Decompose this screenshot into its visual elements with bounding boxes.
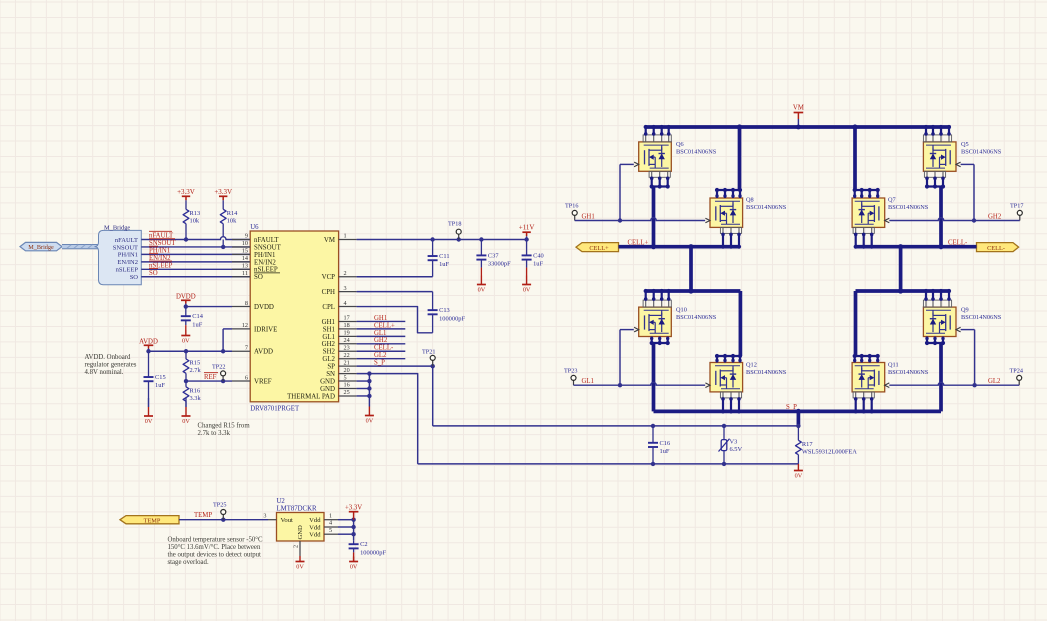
svg-text:BSC014N06NS: BSC014N06NS: [888, 369, 929, 376]
svg-text:Q8: Q8: [746, 197, 754, 204]
svg-text:PH/IN1: PH/IN1: [118, 252, 138, 259]
svg-text:25: 25: [344, 389, 350, 396]
ground 0V under U2 GND pin: [296, 556, 305, 571]
svg-text:SP: SP: [327, 364, 335, 371]
svg-text:DRV8701PRGET: DRV8701PRGET: [250, 406, 300, 413]
svg-text:Q5: Q5: [961, 141, 969, 148]
svg-text:SH2: SH2: [323, 349, 336, 356]
net label nFAULT: [149, 231, 174, 239]
wire S_P drop to shunt: [797, 411, 801, 426]
svg-text:GH1: GH1: [374, 315, 387, 322]
svg-text:C14: C14: [192, 313, 203, 320]
op-amp U2 LMT87DCKR temperature sensor: [277, 498, 325, 541]
op-amp U6 DRV8701PRGET gate driver IC body: [250, 224, 338, 412]
svg-text:C15: C15: [155, 374, 166, 381]
svg-text:Vout: Vout: [281, 517, 294, 524]
svg-text:19: 19: [344, 330, 350, 337]
svg-text:0V: 0V: [478, 287, 486, 294]
port TEMP: [120, 516, 179, 525]
pins Q12 drain: [715, 354, 742, 363]
capacitor C16 1uF: [648, 426, 670, 464]
pins Q9 drain: [923, 289, 951, 307]
ground 0V under R16: [182, 398, 191, 425]
power +3.3V (R13): [177, 188, 195, 203]
svg-text:nFAULT: nFAULT: [115, 237, 138, 244]
wire CELL- rail: [855, 244, 977, 249]
svg-text:2: 2: [344, 270, 347, 277]
svg-text:TP24: TP24: [1010, 368, 1023, 375]
wire EN/IN2: [141, 261, 250, 263]
capacitor C14 1uF: [181, 307, 204, 330]
wire stub net GL2: [357, 358, 406, 360]
wire Q10 source to S_P: [652, 343, 656, 411]
svg-text:GH2: GH2: [988, 214, 1002, 221]
wire stub net GL1: [357, 335, 406, 337]
svg-text:BSC014N06NS: BSC014N06NS: [746, 204, 787, 211]
svg-text:21: 21: [344, 359, 350, 366]
resistor R16 3.3k: [183, 381, 201, 407]
test point TP22: [212, 364, 226, 382]
gate arrow Q11: [885, 383, 890, 388]
svg-text:TP18: TP18: [448, 221, 461, 228]
pins Q5 drain: [923, 125, 951, 142]
svg-text:+3.3V: +3.3V: [177, 188, 195, 196]
svg-text:Q11: Q11: [888, 362, 899, 369]
svg-text:BSC014N06NS: BSC014N06NS: [961, 149, 1002, 156]
net label GH1: [374, 315, 387, 322]
net label EN/IN2: [149, 254, 171, 262]
wire REF to VREF pin 6: [184, 379, 232, 383]
wire IDRIVE to AVDD: [221, 329, 232, 354]
svg-text:5: 5: [344, 374, 347, 381]
port M_Bridge: [20, 242, 62, 251]
wire PH/IN1: [141, 253, 250, 255]
wire VM top rail: [645, 124, 951, 129]
svg-text:6: 6: [245, 374, 248, 381]
wire Q6 gate: [620, 164, 634, 220]
svg-text:1uF: 1uF: [439, 261, 449, 268]
svg-text:C13: C13: [439, 307, 450, 314]
pins Q11 source: [853, 392, 874, 414]
gate arrow Q7: [885, 218, 890, 223]
ground 0V under C15: [144, 398, 153, 425]
wire SN: [357, 371, 418, 464]
svg-text:CELL-: CELL-: [987, 245, 1005, 252]
wire Vdd bus: [338, 518, 356, 541]
power VM: [793, 105, 804, 128]
gate arrow Q5: [956, 162, 961, 167]
svg-text:BSC014N06NS: BSC014N06NS: [746, 369, 787, 376]
svg-text:SO: SO: [254, 274, 263, 281]
svg-text:M_Bridge: M_Bridge: [104, 224, 130, 231]
svg-text:2.7k: 2.7k: [190, 367, 202, 374]
svg-text:TP23: TP23: [564, 368, 577, 375]
transistor Q5 BSC014N06NS: [923, 141, 1001, 171]
capacitor C13 100000pF (CPH-CPL): [428, 292, 466, 333]
gate arrow Q6: [634, 162, 639, 167]
svg-text:TP25: TP25: [213, 502, 226, 509]
svg-text:BSC014N06NS: BSC014N06NS: [676, 149, 717, 156]
gate arrow Q9: [956, 327, 961, 332]
svg-text:V3: V3: [730, 439, 738, 446]
test point TP24: [1010, 368, 1023, 386]
svg-text:8: 8: [245, 300, 248, 307]
svg-text:10: 10: [242, 240, 248, 247]
svg-text:PH/IN1: PH/IN1: [254, 252, 276, 259]
test point TP18: [448, 221, 461, 240]
capacitor C15 1uF: [144, 351, 166, 407]
svg-text:SH1: SH1: [323, 326, 336, 333]
wire DVDD to pin 8: [184, 304, 232, 308]
net label GH1: [582, 214, 595, 221]
svg-text:TP16: TP16: [565, 203, 578, 210]
svg-text:10k: 10k: [190, 218, 200, 225]
svg-text:CPL: CPL: [322, 304, 335, 311]
net label GL1: [582, 378, 594, 385]
ground 0V under C40: [522, 276, 531, 294]
wire SP / S_P: [357, 364, 435, 426]
svg-text:EN/IN2: EN/IN2: [117, 259, 138, 266]
transistor Q8 BSC014N06NS: [710, 197, 787, 228]
transistor Q11 BSC014N06NS: [852, 362, 929, 392]
svg-text:GL1: GL1: [582, 378, 594, 385]
svg-text:6.5V: 6.5V: [730, 446, 743, 453]
svg-text:16: 16: [344, 382, 350, 389]
net label CELL-: [374, 345, 394, 352]
net label TEMP: [194, 512, 212, 519]
svg-text:C11: C11: [439, 253, 449, 260]
ground 0V under R17: [794, 464, 803, 480]
svg-text:WSL59312L000FEA: WSL59312L000FEA: [802, 449, 857, 456]
ground 0V under C14: [181, 330, 190, 345]
svg-text:100000pF: 100000pF: [360, 549, 386, 556]
svg-text:SNSOUT: SNSOUT: [113, 244, 138, 251]
wire S_P sense rail: [433, 424, 801, 428]
svg-text:4.8V nominal.: 4.8V nominal.: [85, 369, 124, 376]
net label SO: [149, 269, 158, 277]
svg-text:CELL-: CELL-: [374, 345, 394, 352]
svg-text:22: 22: [344, 352, 350, 359]
svg-text:C16: C16: [660, 440, 671, 447]
svg-text:GND: GND: [297, 525, 304, 540]
wire nFAULT: [141, 237, 250, 242]
wire Q10 drain bar: [645, 288, 741, 293]
wire stub net CELL+: [357, 328, 406, 330]
svg-text:5: 5: [329, 527, 332, 534]
svg-text:GL2: GL2: [988, 378, 1001, 385]
svg-text:Q10: Q10: [676, 307, 687, 314]
net label GL1: [374, 330, 386, 337]
svg-text:EN/IN2: EN/IN2: [254, 259, 276, 266]
wire Q11 drain to CELL-: [854, 291, 878, 356]
note AVDD regulator: [85, 354, 137, 376]
wire GH1: [575, 218, 706, 223]
svg-text:VCP: VCP: [322, 274, 336, 281]
svg-text:+3.3V: +3.3V: [345, 505, 362, 512]
test point TP16: [565, 203, 578, 221]
pins Q8 source: [720, 227, 741, 248]
svg-text:stage overload.: stage overload.: [168, 559, 209, 566]
svg-text:DVDD: DVDD: [176, 293, 196, 300]
svg-text:IDRIVE: IDRIVE: [254, 326, 277, 333]
transistor Q6 BSC014N06NS: [639, 141, 717, 171]
svg-text:3: 3: [263, 512, 266, 519]
svg-text:33000pF: 33000pF: [488, 261, 511, 268]
capacitor C11 1uF (VM-VCP): [428, 240, 450, 277]
wire Q9 drain bar: [856, 288, 951, 293]
svg-text:DVDD: DVDD: [254, 304, 274, 311]
svg-text:18: 18: [344, 322, 350, 329]
svg-text:1uF: 1uF: [155, 382, 165, 389]
svg-text:nFAULT: nFAULT: [254, 237, 279, 244]
wire TEMP to Vout: [179, 518, 268, 522]
svg-text:1: 1: [329, 512, 332, 519]
port CELL-: [977, 243, 1019, 252]
svg-text:2.7k to 3.3k: 2.7k to 3.3k: [198, 430, 231, 437]
svg-text:3: 3: [344, 285, 347, 292]
pins Q7 source: [853, 227, 874, 248]
harness cable M_Bridge: [62, 245, 98, 249]
harness connector M_Bridge: [95, 224, 142, 284]
svg-text:CELL+: CELL+: [374, 322, 395, 329]
svg-text:R17: R17: [802, 441, 813, 448]
wire stub net GH1: [357, 320, 406, 322]
net label GL2: [988, 378, 1001, 385]
svg-text:GH1: GH1: [322, 319, 336, 326]
wire Q7 drain to VM: [854, 127, 878, 190]
svg-text:R16: R16: [190, 388, 201, 395]
net label PH/IN1: [149, 246, 170, 254]
svg-text:0V: 0V: [523, 287, 531, 294]
net label CELL-: [948, 239, 968, 246]
svg-text:Q12: Q12: [746, 362, 757, 369]
svg-text:TP22: TP22: [212, 364, 225, 371]
svg-text:AVDD: AVDD: [139, 338, 158, 345]
svg-text:AVDD: AVDD: [254, 349, 273, 356]
svg-text:S_P: S_P: [374, 360, 385, 367]
svg-text:GH2: GH2: [374, 337, 388, 344]
net label CELL+: [374, 322, 395, 329]
svg-text:10k: 10k: [227, 218, 237, 225]
gate arrow Q8: [705, 218, 710, 223]
svg-text:+3.3V: +3.3V: [214, 188, 232, 196]
varistor V3 6.5V: [719, 426, 743, 464]
wire CELL+ to lower bridge: [689, 247, 693, 291]
svg-text:+11V: +11V: [519, 224, 535, 232]
svg-text:SN: SN: [326, 371, 335, 378]
pins Q10 source: [650, 337, 670, 346]
wire GH2: [889, 218, 1020, 223]
pins Q6 source: [649, 171, 670, 188]
wire AVDD to pin 7: [146, 349, 232, 353]
pin stubs U6 right (1,2,3,4,17,18,19,24,23,22,21,20,5,16,25): [339, 233, 357, 396]
svg-text:3.3k: 3.3k: [190, 395, 202, 402]
wire S_P rail: [654, 409, 942, 414]
resistor R14 10k: [220, 203, 238, 247]
wire CPL pin4: [357, 307, 433, 333]
wire Q9 gate: [960, 330, 974, 386]
svg-text:9: 9: [245, 233, 248, 240]
wire Q10 gate: [620, 330, 634, 386]
svg-text:VREF: VREF: [254, 378, 272, 385]
wire stub net CELL-: [357, 350, 406, 352]
svg-text:Onboard temperature sensor -50: Onboard temperature sensor -50°C: [168, 536, 263, 543]
power +3.3V (U2): [345, 505, 362, 520]
pins Q12 source: [720, 392, 741, 414]
pins Q9 source: [925, 337, 945, 346]
svg-text:150°C 13.6mV/°C. Place between: 150°C 13.6mV/°C. Place between: [168, 544, 261, 551]
wire SNSOUT: [141, 245, 250, 249]
svg-text:1uF: 1uF: [660, 448, 670, 455]
pins Q7 drain: [853, 188, 880, 198]
svg-text:VM: VM: [793, 105, 804, 112]
svg-text:0V: 0V: [182, 418, 190, 425]
svg-text:TEMP: TEMP: [144, 517, 161, 524]
net label GH2: [374, 337, 388, 344]
svg-text:GH1: GH1: [582, 214, 595, 221]
svg-text:nSLEEP: nSLEEP: [116, 267, 139, 274]
svg-text:GH2: GH2: [322, 341, 336, 348]
test point TP17: [1010, 203, 1023, 221]
svg-text:R15: R15: [190, 360, 201, 367]
wire Q5 gate: [960, 164, 974, 220]
wire SN sense rail: [418, 462, 799, 466]
pins Q8 drain: [715, 188, 742, 198]
svg-text:U6: U6: [250, 224, 259, 231]
svg-text:Vdd: Vdd: [309, 517, 321, 524]
gate arrow Q12: [705, 383, 710, 388]
gate arrow Q10: [634, 327, 639, 332]
svg-text:GL1: GL1: [322, 334, 335, 341]
svg-text:C40: C40: [533, 252, 544, 259]
svg-text:4: 4: [344, 300, 347, 307]
svg-text:0V: 0V: [182, 338, 190, 345]
wire stub net GH2: [357, 343, 406, 345]
net label GH2: [988, 214, 1002, 221]
test point TP23: [564, 368, 577, 386]
svg-text:SNSOUT: SNSOUT: [254, 244, 282, 251]
power +11V: [519, 224, 535, 240]
power DVDD: [176, 293, 196, 306]
svg-text:SO: SO: [130, 274, 139, 281]
svg-text:VM: VM: [324, 237, 335, 244]
svg-text:CELL+: CELL+: [589, 245, 609, 252]
svg-text:M_Bridge: M_Bridge: [28, 244, 54, 251]
test point TP21: [422, 349, 435, 367]
svg-text:23: 23: [344, 344, 350, 351]
wire GL2: [889, 382, 1019, 387]
svg-text:Q6: Q6: [676, 141, 684, 148]
resistor R13 10k: [183, 203, 200, 240]
svg-text:0V: 0V: [795, 473, 803, 480]
wire Q12 drain to CELL+: [716, 291, 742, 356]
power +3.3V (R14): [214, 188, 232, 203]
port CELL+: [576, 243, 619, 252]
svg-text:regulator generates: regulator generates: [85, 362, 137, 369]
svg-text:GND: GND: [320, 378, 335, 385]
svg-text:GL2: GL2: [322, 356, 335, 363]
test point TP25: [213, 502, 226, 520]
resistor R15 2.7k: [183, 351, 201, 381]
svg-text:100000pF: 100000pF: [439, 315, 465, 322]
ground 0V under C37: [477, 276, 486, 294]
svg-text:1uF: 1uF: [192, 321, 202, 328]
wire GND pins junction: [357, 374, 372, 407]
svg-text:GND: GND: [320, 386, 335, 393]
note changed R15: [198, 423, 251, 438]
svg-text:GL1: GL1: [374, 330, 386, 337]
svg-text:GL2: GL2: [374, 352, 387, 359]
net label GL2: [374, 352, 387, 359]
svg-text:C2: C2: [360, 541, 367, 548]
wire VM pin1 rail: [357, 237, 529, 241]
svg-text:0V: 0V: [145, 418, 153, 425]
ground 0V under U6 GND pins: [365, 407, 374, 425]
svg-text:LMT87DCKR: LMT87DCKR: [277, 506, 317, 513]
transistor Q10 BSC014N06NS: [639, 307, 717, 337]
svg-text:15: 15: [242, 248, 248, 255]
pins Q10 drain: [643, 289, 671, 307]
svg-text:the output devices to detect o: the output devices to detect output: [168, 551, 262, 558]
svg-text:AVDD. Onboard: AVDD. Onboard: [85, 354, 132, 361]
svg-text:R14: R14: [227, 210, 238, 217]
wire CELL+ rail: [619, 244, 740, 249]
wire GL1: [574, 382, 706, 387]
capacitor C40 1uF: [522, 240, 544, 276]
power AVDD: [139, 338, 158, 351]
svg-text:0V: 0V: [296, 564, 304, 571]
resistor R17 WSL59312L000FEA shunt: [796, 426, 858, 464]
svg-text:TP21: TP21: [422, 349, 435, 356]
svg-text:Vdd: Vdd: [309, 524, 321, 531]
wire Q9 source to S_P: [939, 343, 943, 411]
svg-text:4: 4: [329, 520, 332, 527]
pin stubs U6 left (9,10,15,14,13,11,8,12,7,6): [232, 233, 250, 382]
net label nSLEEP: [149, 261, 173, 269]
svg-text:17: 17: [344, 315, 350, 322]
svg-text:CPH: CPH: [322, 289, 335, 296]
svg-text:Vdd: Vdd: [309, 532, 321, 539]
wire Q8 drain to VM: [716, 127, 741, 190]
svg-text:7: 7: [245, 344, 248, 351]
wire CELL- to lower bridge: [899, 247, 903, 291]
ground 0V under C2: [349, 557, 358, 571]
svg-text:THERMAL PAD: THERMAL PAD: [287, 393, 335, 400]
svg-text:1: 1: [344, 233, 347, 240]
svg-text:BSC014N06NS: BSC014N06NS: [888, 204, 929, 211]
svg-text:13: 13: [242, 263, 248, 270]
svg-text:REF: REF: [204, 374, 217, 381]
net label SNSOUT: [149, 239, 176, 247]
net label CELL+: [628, 239, 649, 246]
capacitor C2 100000pF: [349, 540, 387, 556]
svg-text:2: 2: [293, 545, 300, 548]
pins Q5 source: [924, 171, 945, 188]
capacitor C37 33000pF: [476, 240, 511, 276]
transistor Q7 BSC014N06NS: [852, 197, 929, 228]
net label REF: [204, 373, 218, 381]
svg-text:C37: C37: [488, 252, 499, 259]
wire nSLEEP: [141, 268, 250, 270]
wire Q6 source to CELL+: [652, 187, 656, 247]
svg-text:BSC014N06NS: BSC014N06NS: [961, 314, 1002, 321]
svg-text:S_P: S_P: [786, 404, 797, 411]
wire Q5 source to CELL-: [939, 187, 943, 247]
pins Q11 drain: [853, 354, 880, 363]
svg-text:TP17: TP17: [1010, 203, 1023, 210]
net label S_P (pin 21): [374, 360, 385, 367]
note temperature sensor: [168, 536, 263, 566]
